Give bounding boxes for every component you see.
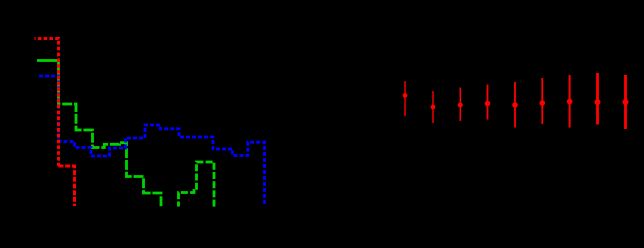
red histogram (dashed)	[35, 39, 59, 167]
green histogram part 2	[179, 162, 215, 207]
error bar 9	[624, 75, 627, 129]
error bar 4	[487, 85, 489, 120]
error bar 8	[596, 73, 599, 125]
green histogram (solid-ish)	[37, 59, 59, 62]
error bar 7	[569, 75, 571, 128]
error bar 3	[459, 88, 461, 122]
error bar 5	[514, 82, 516, 128]
error bar 1	[403, 73, 628, 129]
error bar 6	[541, 78, 543, 124]
blue histogram (dashed)	[39, 76, 265, 205]
error bar 2	[432, 91, 434, 123]
red histogram tail	[59, 166, 75, 206]
